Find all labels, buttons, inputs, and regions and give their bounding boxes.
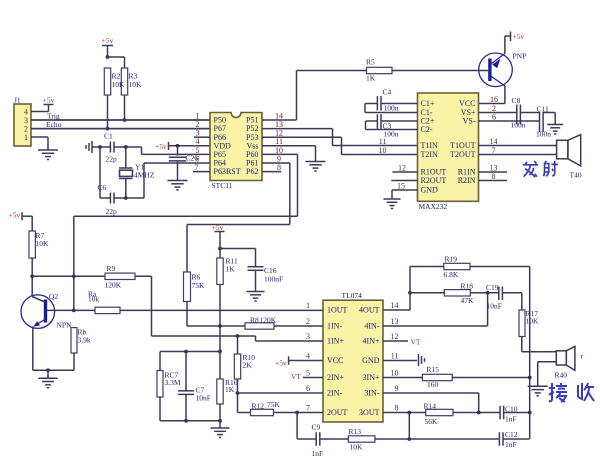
svg-text:15: 15	[397, 181, 405, 190]
svg-text:C12: C12	[505, 430, 518, 439]
node R15-R19v junction	[528, 376, 532, 380]
svg-text:C1+: C1+	[421, 99, 435, 108]
svg-text:1nF: 1nF	[505, 415, 517, 424]
svg-text:9: 9	[395, 384, 399, 393]
node R7-R9 junction	[30, 274, 34, 278]
label 发射 (transmit)	[523, 161, 538, 177]
node R10 top junction	[236, 334, 240, 338]
node R2/R3 +5V junction	[106, 55, 110, 59]
node bottom rail junction	[184, 419, 188, 423]
svg-text:120K: 120K	[105, 281, 122, 290]
wire 3OUT line (pin8)	[383, 412, 426, 414]
svg-text:C4: C4	[383, 88, 392, 97]
svg-text:2: 2	[306, 317, 310, 326]
capacitor C3 100n	[381, 120, 418, 122]
svg-text:NPN: NPN	[57, 321, 73, 330]
wire RC7/C7 top rail	[160, 351, 220, 353]
svg-text:10: 10	[391, 368, 399, 377]
svg-text:14: 14	[490, 137, 498, 146]
connector J1	[14, 104, 31, 146]
svg-text:16: 16	[490, 95, 498, 104]
svg-text:1OUT: 1OUT	[327, 306, 348, 315]
svg-text:6: 6	[492, 112, 496, 121]
svg-text:C9: C9	[312, 423, 321, 432]
svg-text:4OUT: 4OUT	[359, 306, 380, 315]
TL074 pin12 stub	[383, 340, 408, 342]
svg-text:Q2: Q2	[49, 292, 58, 301]
svg-text:10nF: 10nF	[196, 394, 211, 403]
resistor R2	[104, 68, 110, 95]
svg-text:1IN+: 1IN+	[327, 337, 344, 346]
svg-text:GND: GND	[421, 186, 439, 195]
capacitor C1 22p	[100, 146, 110, 148]
power +5V (PNP emitter)	[505, 35, 511, 37]
resistor R11 1K	[217, 258, 223, 285]
svg-text:3OUT: 3OUT	[359, 408, 380, 417]
wire 1IN+ line	[152, 335, 256, 337]
resistor R12 75K	[238, 412, 251, 414]
svg-text:4IN+: 4IN+	[363, 337, 380, 346]
svg-text:T1OUT: T1OUT	[450, 141, 475, 150]
capacitor C7 10nF	[185, 352, 187, 391]
capacitor C26	[177, 146, 179, 156]
node crystal bottom junction	[124, 196, 128, 200]
svg-text:12: 12	[398, 163, 406, 172]
transistor Q2 NPN	[21, 295, 55, 329]
wire crystal node to P64	[126, 197, 144, 199]
svg-text:14: 14	[391, 301, 399, 310]
capacitor C6 22p	[100, 197, 110, 199]
wire R12 to 2IN-	[237, 393, 239, 413]
resistor R16 1K	[217, 379, 223, 404]
node 2OUT-C9 junction	[295, 411, 299, 415]
ground R40	[528, 385, 548, 387]
svg-text:4IN-: 4IN-	[364, 322, 379, 331]
svg-text:GND: GND	[362, 356, 380, 365]
opamp TL074	[323, 300, 383, 422]
node base line junction	[72, 309, 76, 313]
svg-text:PNP: PNP	[513, 52, 527, 61]
ground C16	[247, 291, 265, 293]
resistor R13 10K	[348, 436, 375, 442]
crystal Y1 4MHZ	[125, 147, 127, 168]
wire C1 node to P65	[126, 146, 142, 148]
resistor R5 1K	[297, 70, 367, 72]
wire rail to ground	[47, 370, 49, 378]
wire P53 to T2IN (pin12)	[262, 136, 342, 138]
wire R8 line (1IN-)	[187, 325, 245, 327]
svg-text:6.8K: 6.8K	[444, 270, 459, 279]
svg-text:8: 8	[492, 172, 496, 181]
transistor Q PNP	[479, 53, 513, 87]
wire P61 down (pin9)	[262, 162, 290, 164]
resistor R10 2K	[237, 336, 239, 354]
svg-text:R9: R9	[107, 264, 116, 273]
svg-text:C2-: C2-	[421, 125, 433, 134]
resistor Rb 3.9k	[71, 328, 77, 353]
resistor R7 10K	[29, 231, 35, 258]
wire RC7/C7 bottom rail	[160, 420, 220, 422]
capacitor C19 10nF	[498, 287, 500, 301]
resistor Ra 10k	[95, 307, 120, 313]
svg-text:11: 11	[379, 137, 387, 146]
wire C1-C6 left vertical	[99, 147, 101, 198]
svg-text:12: 12	[391, 332, 399, 341]
svg-text:100n: 100n	[384, 104, 399, 113]
svg-text:C8: C8	[512, 96, 521, 105]
wire 2IN- line	[238, 392, 324, 394]
resistor R6 75K	[184, 272, 191, 302]
svg-text:22p: 22p	[106, 155, 118, 164]
TL074 GND stub (pin11)	[383, 360, 417, 362]
svg-text:R5: R5	[366, 58, 375, 67]
svg-text:3IN+: 3IN+	[363, 373, 380, 382]
STC11 pin8 stub	[262, 171, 281, 173]
resistor R8 120K	[245, 323, 274, 329]
resistor R19 6.8K	[410, 266, 444, 268]
wire R16 to ground	[219, 404, 221, 428]
svg-text:R12: R12	[252, 402, 265, 411]
svg-text:J1: J1	[14, 96, 21, 105]
resistor R3	[121, 68, 127, 95]
node R13-C12 junction	[407, 437, 411, 441]
svg-text:1: 1	[24, 133, 28, 142]
ground C11	[547, 124, 563, 126]
ground J1	[38, 149, 58, 151]
node C10-R19v junction	[528, 411, 532, 415]
svg-text:10k: 10k	[88, 295, 100, 304]
svg-text:3.3M: 3.3M	[165, 378, 181, 387]
ground Vss	[306, 161, 326, 163]
svg-text:1K: 1K	[225, 385, 235, 394]
node pin9-R14 junction	[477, 411, 481, 415]
svg-text:3: 3	[306, 332, 310, 341]
svg-text:+5v: +5v	[155, 142, 167, 151]
STC11 pin7 stub	[193, 171, 210, 173]
resistor R17 10K	[519, 310, 525, 337]
svg-text:+5v: +5v	[102, 36, 114, 45]
svg-text:+5v: +5v	[212, 223, 224, 232]
svg-text:2IN-: 2IN-	[327, 389, 342, 398]
svg-text:R40: R40	[555, 371, 568, 380]
STC11 pin3 stub	[194, 136, 210, 138]
label 接收 (receive)	[549, 383, 567, 402]
resistor R14 56K	[426, 409, 453, 415]
svg-text:+5v: +5v	[275, 358, 287, 367]
svg-text:+5v: +5v	[9, 210, 21, 219]
svg-text:7: 7	[306, 403, 310, 412]
capacitor C12 1nF	[409, 438, 498, 440]
svg-text:1nF: 1nF	[312, 449, 324, 458]
svg-text:VT: VT	[291, 372, 301, 381]
svg-text:Echo: Echo	[46, 120, 62, 129]
svg-text:C6: C6	[98, 183, 107, 192]
svg-text:+5v: +5v	[43, 96, 55, 105]
svg-text:P62: P62	[246, 167, 258, 176]
wire 4OUT up (pin14)	[383, 309, 410, 311]
svg-text:T2OUT: T2OUT	[450, 150, 475, 159]
svg-text:MAX232: MAX232	[419, 202, 448, 211]
svg-text:56K: 56K	[425, 417, 439, 426]
svg-text:R13: R13	[349, 427, 362, 436]
svg-text:R15: R15	[427, 365, 440, 374]
node emitter rail junction	[46, 368, 50, 372]
svg-text:120K: 120K	[260, 315, 277, 324]
ground Q2	[39, 377, 58, 379]
node 2IN- junction	[236, 391, 240, 395]
wire J1 pin1 to ground	[31, 136, 48, 138]
svg-text:4: 4	[306, 351, 310, 360]
svg-text:T40: T40	[570, 171, 582, 180]
svg-text:6: 6	[306, 384, 310, 393]
svg-text:22p: 22p	[106, 207, 118, 216]
svg-text:10K: 10K	[526, 317, 540, 326]
node R11-rail junction	[218, 350, 222, 354]
resistor R9 120K	[32, 275, 105, 277]
svg-text:2IN+: 2IN+	[327, 373, 344, 382]
svg-text:10K: 10K	[350, 443, 364, 452]
svg-text:1: 1	[306, 301, 310, 310]
mcu STC11	[210, 113, 262, 181]
capacitor C8 100n	[516, 105, 518, 125]
svg-text:10: 10	[379, 146, 387, 155]
svg-text:R2OUT: R2OUT	[421, 176, 447, 185]
node line1-R9line junction	[72, 274, 76, 278]
svg-text:5: 5	[306, 368, 310, 377]
svg-text:C10: C10	[505, 404, 518, 413]
svg-text:3.9k: 3.9k	[78, 336, 91, 345]
node R13-3OUT junction	[407, 411, 411, 415]
svg-text:2OUT: 2OUT	[327, 408, 348, 417]
node VDD-C26 junction	[176, 144, 180, 148]
ground MAX232 GND	[384, 198, 401, 200]
svg-text:100n: 100n	[536, 129, 551, 138]
svg-text:R2IN: R2IN	[458, 176, 476, 185]
svg-text:7: 7	[492, 146, 496, 155]
svg-text:VS-: VS-	[463, 117, 476, 126]
svg-text:75K: 75K	[192, 281, 206, 290]
svg-text:1K: 1K	[226, 265, 236, 274]
svg-text:1K: 1K	[366, 74, 376, 83]
svg-text:C1: C1	[104, 132, 113, 141]
wire P60 down (pin10)	[262, 153, 298, 155]
node R18 branch junction	[408, 291, 412, 295]
wire R19 right vertical	[529, 267, 531, 439]
resistor RC7 3.3M	[159, 352, 161, 371]
node crystal top junction	[124, 145, 128, 149]
svg-text:C11: C11	[537, 104, 549, 113]
wire 3IN- down (pin9)	[383, 392, 479, 394]
svg-text:160: 160	[427, 380, 439, 389]
svg-text:R14: R14	[424, 401, 437, 410]
wire line1 down to base line	[73, 216, 75, 310]
wire R17 to speaker	[522, 351, 557, 353]
wire 2OUT to C9	[296, 413, 298, 440]
capacitor C10 1nF	[499, 406, 501, 420]
ic MAX232	[418, 93, 479, 201]
speaker T40	[557, 140, 568, 159]
MAX232 R1OUT stub pin12	[393, 171, 418, 173]
ground R16	[211, 427, 230, 429]
ground (left of C1, sideways)	[91, 141, 93, 153]
wire R13 node up to 3OUT line	[408, 413, 410, 440]
svg-text:11: 11	[391, 351, 399, 360]
svg-text:T2IN: T2IN	[421, 150, 439, 159]
resistor R18 47K	[410, 292, 444, 294]
svg-text:C19: C19	[486, 283, 499, 292]
svg-text:10K: 10K	[129, 80, 143, 89]
node R6-R8 line junction	[218, 324, 222, 328]
svg-text:2K: 2K	[243, 361, 253, 370]
node R3-Trig junction	[123, 118, 127, 122]
MAX232 R2OUT stub	[391, 180, 417, 182]
node R11-C16 junction	[218, 247, 222, 251]
wire 4IN- to C19 (pin13)	[383, 325, 488, 327]
svg-text:+5v: +5v	[513, 32, 525, 41]
svg-text:47K: 47K	[461, 296, 475, 305]
capacitor C11 100n	[539, 112, 541, 132]
speaker R40	[556, 351, 566, 365]
svg-text:VCC: VCC	[459, 99, 475, 108]
svg-text:100nF: 100nF	[264, 275, 283, 284]
node C1 left junction	[98, 145, 102, 149]
wire line2 to R6	[186, 225, 188, 273]
wire P52 to T1IN (pin13)	[262, 128, 333, 130]
wire Vss to ground (pin11)	[262, 145, 316, 147]
MAX232 GND wire pin15	[392, 189, 418, 191]
capacitor C9 1nF	[297, 438, 316, 440]
wire base line (Q2 base to 1OUT)	[47, 309, 95, 311]
svg-text:R18: R18	[461, 281, 474, 290]
svg-text:R19: R19	[445, 255, 458, 264]
wire C11 to ground	[554, 113, 556, 125]
svg-text:10K: 10K	[112, 80, 126, 89]
wire line1 (P60 net)	[74, 215, 298, 217]
resistor R15 160	[383, 377, 422, 379]
wire R40 to ground	[538, 361, 557, 363]
svg-text:P63RST: P63RST	[214, 167, 241, 176]
svg-text:8: 8	[395, 403, 399, 412]
svg-text:3IN-: 3IN-	[364, 389, 379, 398]
ground C26	[168, 180, 188, 182]
wire Echo net	[31, 128, 210, 130]
svg-text:T1IN: T1IN	[421, 141, 439, 150]
capacitor C4 100n	[381, 103, 418, 105]
svg-text:R8: R8	[250, 315, 259, 324]
wire P51 to R5 (pin14)	[262, 119, 297, 121]
wire line2 (P61 net)	[187, 224, 290, 226]
node R2-Echo junction	[106, 127, 110, 131]
svg-text:10nF: 10nF	[487, 301, 502, 310]
svg-text:75K: 75K	[267, 400, 281, 409]
wire +5V to R3	[108, 56, 125, 58]
node R16-rail junction	[218, 419, 222, 423]
ground TL074 GND (sideways)	[418, 354, 420, 366]
svg-text:13: 13	[391, 317, 399, 326]
svg-text:1IN-: 1IN-	[327, 322, 342, 331]
wire PNP collector to VCC	[504, 86, 506, 104]
svg-text:VT: VT	[411, 337, 421, 346]
capacitor C16 100nF	[220, 248, 256, 250]
svg-text:TL074: TL074	[342, 291, 363, 300]
node C7 top junction	[184, 350, 188, 354]
svg-text:1nF: 1nF	[505, 440, 517, 449]
svg-text:7: 7	[195, 163, 199, 172]
svg-text:10K: 10K	[36, 239, 50, 248]
svg-text:8: 8	[277, 163, 281, 172]
wire Q2 emitter rail	[33, 369, 74, 371]
wire Trig net	[31, 119, 210, 121]
svg-text:STC11: STC11	[212, 181, 233, 190]
svg-text:VCC: VCC	[327, 356, 343, 365]
node pin13-C19 junction	[486, 291, 490, 295]
